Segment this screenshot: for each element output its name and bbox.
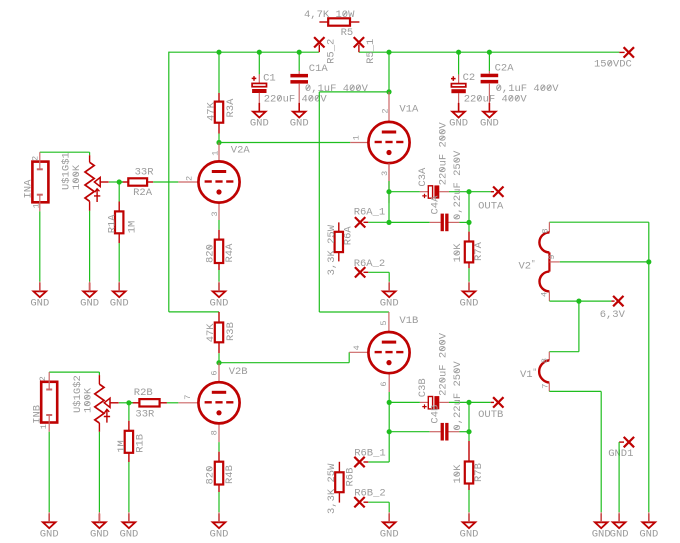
svg-text:3: 3: [210, 211, 220, 216]
svg-text:GND: GND: [610, 528, 629, 540]
wire heater V2 tap to right rail: [560, 261, 649, 263]
svg-text:1M: 1M: [116, 440, 128, 453]
junction rail/R3A: [216, 50, 221, 55]
ground under INA: [34, 283, 47, 298]
svg-text:GND: GND: [639, 528, 658, 540]
svg-text:GND: GND: [119, 528, 138, 540]
svg-text:4: 4: [352, 345, 362, 350]
node R5_2: [318, 45, 320, 53]
svg-text:8: 8: [210, 430, 220, 435]
svg-text:3,3K 25W: 3,3K 25W: [326, 224, 338, 275]
capacitor C4B: [389, 431, 430, 433]
svg-text:1: 1: [39, 424, 49, 429]
svg-text:10K: 10K: [452, 464, 464, 484]
svg-text:GND: GND: [290, 118, 309, 130]
ground under C1: [253, 103, 266, 118]
svg-text:R1B: R1B: [134, 434, 146, 453]
svg-text:7: 7: [183, 395, 193, 400]
junction 6.3V: [576, 299, 581, 304]
svg-text:6: 6: [210, 370, 220, 375]
svg-text:C3A: C3A: [417, 167, 429, 187]
junction OUTB right: [466, 400, 471, 405]
svg-text:GND: GND: [480, 118, 499, 130]
ground under R6A_2: [383, 283, 396, 298]
svg-text:33R: 33R: [135, 408, 155, 420]
svg-text:R3B: R3B: [225, 322, 237, 341]
svg-text:GND: GND: [110, 297, 129, 309]
node R6B_2: [354, 497, 364, 507]
svg-text:C4B: C4B: [430, 405, 442, 424]
junction tap/right rail: [646, 259, 651, 264]
resistor R2A: [147, 181, 153, 183]
wire to R3B top: [169, 311, 219, 313]
svg-text:GND: GND: [250, 118, 269, 130]
junction rail/C2: [456, 50, 461, 55]
capacitor C2A: [488, 52, 490, 71]
junction rail/V1 anodes: [386, 50, 391, 55]
resistor R3A: [218, 52, 220, 93]
svg-text:R4B: R4B: [224, 465, 236, 484]
svg-text:R6A_1: R6A_1: [354, 206, 386, 218]
svg-text:1: 1: [31, 203, 41, 208]
node OUTB: [469, 401, 491, 403]
svg-text:47K: 47K: [206, 101, 218, 121]
svg-text:GND: GND: [90, 528, 109, 540]
ground under pot B: [93, 514, 106, 529]
resistor R1A: [118, 182, 120, 202]
triode V2B: [218, 363, 220, 383]
ground under R4B: [213, 514, 226, 529]
ground under pot A: [83, 283, 96, 298]
svg-text:R6B_2: R6B_2: [354, 488, 386, 500]
triode V1B: [388, 312, 390, 332]
svg-text:R2A: R2A: [133, 187, 153, 199]
svg-text:8: 8: [540, 358, 550, 363]
wire GND1 to ground: [618, 442, 620, 512]
svg-text:C3B: C3B: [417, 378, 429, 397]
svg-text:C4A: C4A: [430, 195, 442, 215]
junction OUTB left: [387, 400, 392, 405]
svg-text:R4A: R4A: [224, 243, 236, 263]
svg-text:R2B: R2B: [134, 387, 153, 399]
node OUTA: [469, 191, 491, 193]
svg-text:150VDC: 150VDC: [594, 59, 632, 71]
svg-text:R6A_2: R6A_2: [354, 258, 386, 270]
svg-text:4: 4: [540, 292, 550, 297]
svg-text:GND: GND: [210, 528, 229, 540]
resistor R4B: [218, 442, 220, 452]
svg-text:2: 2: [380, 108, 390, 113]
capacitor C1: [258, 52, 260, 74]
ground GND1: [613, 514, 626, 529]
svg-text:OUTB: OUTB: [478, 409, 503, 421]
svg-text:V2A: V2A: [231, 144, 251, 156]
wire R3A to V2A anode: [218, 134, 220, 143]
junction C4A right: [466, 220, 471, 225]
resistor R5: [319, 21, 328, 23]
svg-text:R1A: R1A: [106, 214, 118, 234]
node R6A_2: [355, 267, 365, 277]
svg-text:V1A: V1A: [399, 104, 419, 116]
svg-text:GND: GND: [449, 118, 468, 130]
junction rail/C1: [257, 50, 262, 55]
svg-text:1M: 1M: [127, 221, 139, 234]
resistor R1B: [128, 403, 130, 421]
node 6,3V: [611, 300, 614, 302]
wire B+ rail right segment: [359, 51, 620, 53]
svg-text:220uF 400V: 220uF 400V: [264, 93, 328, 105]
wire V2B anode to V1B grid: [219, 362, 349, 364]
svg-text:7: 7: [541, 384, 551, 389]
junction pot wiper B: [126, 400, 131, 405]
capacitor C2: [458, 52, 460, 74]
svg-text:INA: INA: [23, 179, 35, 199]
svg-text:6,3V: 6,3V: [600, 309, 626, 321]
svg-text:33R: 33R: [135, 167, 155, 179]
svg-text:GND: GND: [210, 297, 229, 309]
junction V2A anode node: [216, 140, 221, 145]
ground under C2: [452, 103, 465, 118]
ground under R7B: [463, 514, 476, 529]
svg-text:R7B: R7B: [473, 463, 485, 482]
wire heater V1 bottom to ground: [549, 390, 601, 392]
junction C4B right: [466, 429, 471, 434]
capacitor C1A: [298, 52, 300, 71]
svg-text:0,1uF 400V: 0,1uF 400V: [496, 83, 560, 95]
svg-text:GND: GND: [30, 297, 49, 309]
junction OUTA right: [466, 189, 471, 194]
svg-text:V2B: V2B: [229, 366, 248, 378]
capacitor C3B: [420, 401, 428, 403]
svg-text:OUTA: OUTA: [478, 201, 504, 213]
svg-text:0,22uF 250V: 0,22uF 250V: [452, 361, 464, 431]
svg-text:100K: 100K: [82, 387, 94, 413]
svg-text:GND: GND: [592, 528, 611, 540]
node GND1: [624, 437, 634, 447]
wire V1B cathode node: [388, 392, 390, 402]
ground right rail: [643, 514, 656, 529]
svg-text:10K: 10K: [452, 243, 464, 263]
svg-text:GND: GND: [460, 297, 479, 309]
junction OUTA left: [386, 189, 391, 194]
wire rail to V1A anode: [388, 52, 390, 92]
svg-text:820: 820: [205, 466, 217, 485]
svg-text:3,3K 25W: 3,3K 25W: [326, 463, 338, 514]
ground under INB: [43, 514, 56, 529]
svg-text:GND: GND: [40, 528, 59, 540]
resistor R6B: [338, 462, 340, 473]
svg-text:V1B: V1B: [399, 315, 418, 327]
svg-text:0,22uF 250V: 0,22uF 250V: [452, 150, 464, 220]
node R6B_1: [388, 432, 390, 462]
svg-text:R7A: R7A: [473, 241, 485, 261]
potentiometer U$1G$2: [49, 371, 99, 373]
svg-text:9: 9: [547, 254, 557, 259]
connector INA: [32, 162, 48, 203]
svg-text:R6A: R6A: [342, 226, 354, 246]
triode V1A: [388, 92, 390, 122]
svg-text:220uF 400V: 220uF 400V: [464, 93, 528, 105]
svg-text:8: 8: [541, 228, 551, 233]
heater winding V1: [548, 352, 550, 361]
junction V2B anode node: [216, 360, 221, 365]
svg-text:R6B_1: R6B_1: [354, 448, 386, 460]
resistor R7B: [468, 432, 470, 441]
heater winding V2: [549, 221, 648, 223]
wire anode branch to V1B: [319, 91, 389, 93]
junction pot wiper A: [117, 179, 122, 184]
junction rail/C2A: [487, 50, 492, 55]
wire heater V2 bottom to 6.3V node: [549, 300, 611, 302]
svg-text:GND: GND: [380, 297, 399, 309]
wire cathode node down B: [388, 402, 390, 431]
svg-text:R6B: R6B: [344, 468, 356, 487]
connector INB: [41, 382, 57, 423]
svg-text:3: 3: [380, 171, 390, 176]
svg-text:100K: 100K: [71, 164, 83, 190]
junction C4B left: [387, 429, 392, 434]
ground under R7A: [463, 283, 476, 298]
svg-text:1: 1: [211, 151, 221, 156]
svg-text:47K: 47K: [205, 323, 217, 343]
svg-text:820: 820: [205, 244, 217, 263]
ground under C1A: [293, 103, 306, 118]
resistor R4A: [218, 220, 220, 230]
wire V1A cathode node: [388, 163, 390, 181]
resistor R3B: [218, 312, 220, 323]
wire B+ rail left segment: [169, 51, 319, 53]
svg-text:R5_1: R5_1: [365, 39, 377, 64]
potentiometer U$1G$1: [40, 151, 90, 153]
junction C4A left: [386, 220, 391, 225]
svg-text:GND: GND: [80, 297, 99, 309]
svg-text:0,1uF 400V: 0,1uF 400V: [305, 83, 369, 95]
svg-text:4,7K 10W: 4,7K 10W: [304, 9, 355, 21]
svg-text:C2: C2: [463, 72, 476, 84]
svg-text:R5: R5: [341, 27, 354, 39]
resistor R2B: [160, 402, 167, 404]
ground under R1B: [123, 514, 136, 529]
svg-text:2: 2: [38, 376, 48, 381]
triode V2A: [218, 143, 220, 162]
node 150VDC: [619, 51, 624, 53]
resistor R6A: [338, 222, 340, 231]
ground under R6B_2: [383, 514, 396, 529]
wire cathode node down: [388, 192, 390, 223]
svg-text:R5_2: R5_2: [326, 39, 338, 64]
wire 6.3V node to heater V1: [578, 301, 580, 352]
junction V1A anode branch: [386, 89, 391, 94]
node R5_1: [358, 45, 360, 53]
svg-text:C1A: C1A: [309, 63, 329, 75]
svg-text:1: 1: [352, 135, 362, 140]
svg-text:2: 2: [30, 156, 40, 161]
resistor R7A: [468, 222, 470, 231]
svg-text:5: 5: [379, 320, 389, 325]
svg-text:6: 6: [379, 381, 389, 386]
wire V2A anode to V1A grid: [219, 142, 350, 144]
svg-text:INB: INB: [31, 405, 43, 424]
svg-text:2: 2: [184, 176, 194, 181]
svg-text:C2A: C2A: [495, 62, 515, 74]
junction rail/C1A: [297, 50, 302, 55]
ground under R1A: [113, 283, 126, 298]
capacitor C3A: [420, 191, 428, 193]
svg-text:GND: GND: [380, 528, 399, 540]
wire right vertical to ground: [648, 222, 650, 512]
ground under R4A: [213, 283, 226, 298]
capacitor C4A: [389, 221, 430, 223]
ground under C2A: [483, 103, 496, 118]
wire rail drop to R3B (left vertical): [168, 52, 170, 312]
svg-text:R3A: R3A: [225, 98, 237, 118]
svg-text:GND: GND: [460, 528, 479, 540]
ground heater return: [595, 514, 608, 529]
svg-text:GND1: GND1: [608, 448, 633, 460]
svg-text:C1: C1: [263, 73, 276, 85]
node R6A_1: [355, 217, 365, 227]
